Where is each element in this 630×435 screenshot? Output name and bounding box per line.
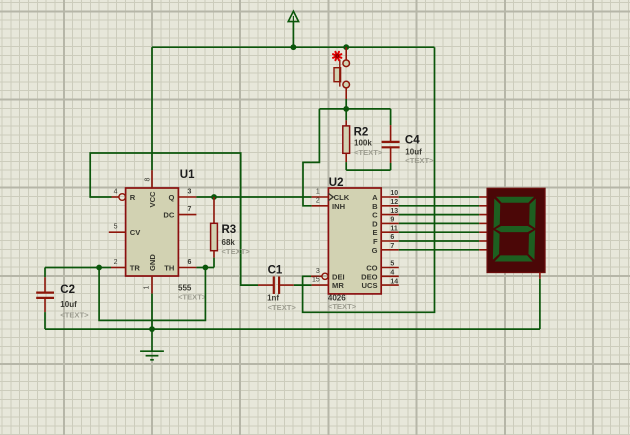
- svg-text:VCC: VCC: [148, 191, 157, 208]
- svg-text:4: 4: [390, 270, 394, 277]
- svg-text:E: E: [373, 228, 378, 237]
- ground symbol: [140, 329, 164, 360]
- svg-text:5: 5: [114, 224, 118, 231]
- svg-text:U2: U2: [329, 177, 344, 189]
- U2 clock chevron: [328, 193, 333, 200]
- U1 pin 1 GND lead: [151, 276, 153, 294]
- svg-text:F: F: [373, 237, 378, 246]
- wire mid-rail to INH (left jog): [303, 109, 319, 206]
- wire C1 to MR: [294, 284, 312, 286]
- svg-text:R: R: [130, 193, 136, 202]
- svg-text:DEI: DEI: [332, 272, 345, 281]
- resistor R2: [343, 109, 350, 170]
- svg-text:7: 7: [188, 206, 192, 213]
- node junction button-top/rail: [343, 44, 349, 50]
- op IC U1 555 body: [126, 188, 179, 276]
- U2 pin 14 UCS stub: [381, 284, 399, 286]
- node junction TH node: [203, 265, 209, 271]
- svg-text:DC: DC: [163, 211, 174, 220]
- svg-text:<TEXT>: <TEXT>: [222, 247, 251, 256]
- svg-text:10: 10: [390, 190, 398, 197]
- U2 pin 7 segment G wire to display: [381, 249, 399, 251]
- svg-text:6: 6: [390, 234, 394, 241]
- svg-text:CO: CO: [366, 264, 377, 273]
- U1 pin 7 DC stub: [178, 214, 196, 216]
- svg-text:GND: GND: [148, 254, 157, 271]
- wire 555 reset loop (pin4 to C1): [90, 153, 258, 285]
- svg-text:R3: R3: [222, 224, 237, 236]
- wire power stem: [292, 22, 294, 48]
- U1 pin 2 TR: [99, 267, 111, 269]
- svg-text:TH: TH: [164, 264, 174, 273]
- U2 pin 4 DEO stub: [381, 275, 399, 277]
- svg-text:C1: C1: [268, 264, 283, 276]
- capacitor C1: [258, 276, 294, 294]
- svg-text:6: 6: [188, 259, 192, 266]
- svg-text:10uf: 10uf: [60, 300, 77, 309]
- svg-text:1: 1: [316, 189, 320, 196]
- wire ground rail: [45, 328, 540, 330]
- svg-text:13: 13: [390, 208, 398, 215]
- svg-text:3: 3: [188, 189, 192, 196]
- node junction Q/R3: [211, 194, 217, 200]
- svg-text:U1: U1: [180, 169, 195, 181]
- svg-text:5: 5: [390, 261, 394, 268]
- wire DEI branch: [303, 276, 311, 285]
- svg-text:1nf: 1nf: [267, 294, 279, 303]
- svg-text:8: 8: [145, 178, 152, 182]
- svg-text:UCS: UCS: [362, 281, 378, 290]
- button actuator star marker: [333, 52, 341, 60]
- svg-text:15: 15: [312, 277, 320, 284]
- U1 pin 4 R with bubble: [112, 196, 119, 198]
- U1 pin 6 TH: [178, 267, 196, 269]
- 7-segment display body: [487, 188, 545, 272]
- capacitor C4: [382, 109, 400, 170]
- U2 pin 11 segment E wire to display: [381, 231, 399, 233]
- svg-text:CV: CV: [130, 228, 141, 237]
- svg-text:CLK: CLK: [334, 193, 350, 202]
- svg-text:B: B: [372, 202, 378, 211]
- svg-text:2: 2: [316, 197, 320, 204]
- svg-text:7: 7: [390, 243, 394, 250]
- wire button top lead: [345, 47, 347, 60]
- svg-text:<TEXT>: <TEXT>: [178, 293, 207, 302]
- svg-text:<TEXT>: <TEXT>: [328, 302, 357, 311]
- svg-text:555: 555: [178, 284, 192, 293]
- U2 pin 9 segment D wire to display: [381, 222, 399, 224]
- U2 pin 6 segment F wire to display: [381, 240, 399, 242]
- U2 pin 3 DEI stub with bubble: [311, 275, 322, 277]
- svg-text:<TEXT>: <TEXT>: [405, 156, 434, 165]
- wire TR-TH U loop: [99, 268, 205, 321]
- svg-text:4: 4: [114, 189, 118, 196]
- U2 pin 2 INH stub: [312, 205, 329, 207]
- wire mid rail (button to C4): [319, 108, 390, 110]
- svg-text:14: 14: [390, 278, 398, 285]
- svg-text:100k: 100k: [354, 138, 372, 147]
- wire VCC right drop: [303, 47, 435, 312]
- node junction ground: [149, 326, 155, 332]
- svg-text:C: C: [372, 211, 378, 220]
- capacitor C2: [36, 268, 99, 330]
- U2 pin 5 CO stub: [381, 267, 399, 269]
- svg-text:3: 3: [316, 268, 320, 275]
- svg-text:G: G: [372, 246, 378, 255]
- U2 pin 12 segment B wire to display: [381, 205, 399, 207]
- 7-segment digit 8: [493, 197, 536, 262]
- U1 pin 5 CV stub: [109, 231, 126, 233]
- node junction power/rail: [291, 44, 297, 50]
- U2 pin 15 MR stub: [312, 284, 329, 286]
- wire R2/C4 bottom tie: [346, 169, 390, 171]
- display common lead: [539, 273, 541, 279]
- svg-text:12: 12: [390, 199, 398, 206]
- svg-text:9: 9: [390, 217, 394, 224]
- svg-text:C4: C4: [405, 134, 420, 146]
- svg-text:<TEXT>: <TEXT>: [268, 303, 297, 312]
- svg-text:INH: INH: [332, 202, 345, 211]
- U2 pin 13 segment C wire to display: [381, 214, 399, 216]
- svg-text:C2: C2: [60, 284, 75, 296]
- svg-text:DEO: DEO: [361, 272, 378, 281]
- U1 pin 3 Q wire to U2 CLK: [178, 196, 196, 198]
- svg-text:2: 2: [114, 259, 118, 266]
- node junction button-bottom/mid-rail: [343, 106, 349, 112]
- svg-text:1: 1: [144, 286, 151, 290]
- U2 pin 10 segment A wire to display: [381, 196, 399, 198]
- resistor R3: [205, 197, 217, 268]
- svg-text:<TEXT>: <TEXT>: [354, 148, 383, 157]
- svg-text:Q: Q: [168, 193, 174, 202]
- svg-text:TR: TR: [130, 264, 141, 273]
- wire top VCC rail: [152, 46, 435, 48]
- svg-text:<TEXT>: <TEXT>: [60, 310, 89, 319]
- node junction TR node: [96, 265, 102, 271]
- svg-text:D: D: [372, 219, 378, 228]
- svg-text:R2: R2: [354, 127, 369, 139]
- svg-text:MR: MR: [332, 281, 344, 290]
- power symbol VCC arrow: [288, 11, 298, 21]
- svg-text:A: A: [372, 193, 378, 202]
- U2 pin 1 CLK stub: [312, 196, 329, 198]
- counter IC U2 4026 body: [328, 188, 381, 294]
- svg-text:11: 11: [390, 225, 398, 232]
- wire button bottom lead: [345, 88, 347, 99]
- svg-text:68k: 68k: [222, 238, 236, 247]
- U1 pin 8 VCC riser: [151, 47, 153, 170]
- push button SW1: [334, 60, 350, 88]
